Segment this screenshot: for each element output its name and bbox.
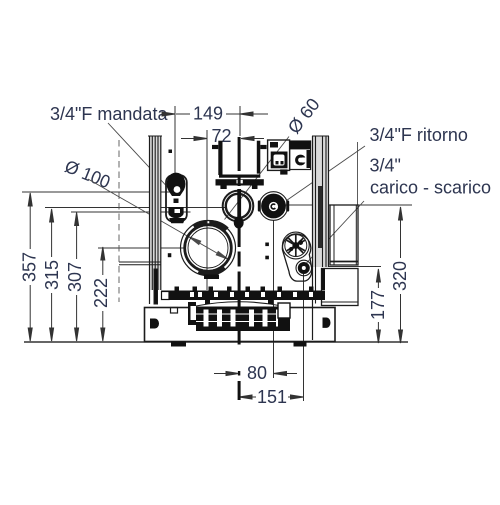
leader ritorno [287,146,366,201]
dim line 151 [239,395,304,399]
dim line 222 [101,247,105,341]
extension line y192 (357) [22,191,172,193]
svg-text:carico - scarico: carico - scarico [370,178,491,198]
svg-text:3/4": 3/4" [370,156,401,176]
frame band [161,291,325,301]
band white slots [190,292,313,297]
connector box left [268,140,290,170]
drain valve circle [296,260,312,276]
floor baseline [24,341,408,343]
burner left bracket [188,302,196,325]
safety valve star dial [282,232,312,281]
right wall [312,136,329,340]
dim line 357 [28,193,32,341]
svg-text:151: 151 [257,387,287,407]
extension line y205 (320) [283,204,412,206]
rear upper box [330,205,358,265]
svg-text:149: 149 [193,104,223,124]
base plate [145,308,336,342]
small bolts pair [265,243,269,247]
leader mandata [108,123,173,193]
svg-text:3/4"F mandata: 3/4"F mandata [50,104,168,124]
base hole right [323,318,331,328]
mandata fitting [166,173,187,224]
rear lower box [322,269,359,306]
dim line 80 [214,372,297,376]
burner right box [278,303,290,318]
svg-text:177: 177 [368,290,388,320]
leader diameter60 [225,137,290,220]
dim line 320 [399,207,403,343]
base foot right [294,342,307,347]
band top tabs [175,287,314,292]
extension line y248 (222) [98,247,186,249]
extension line x207 [206,130,208,290]
svg-text:222: 222 [91,278,111,308]
flue bracket U [212,141,267,189]
svg-text:357: 357 [20,252,40,282]
ritorno knob [258,192,289,221]
big flue circle [181,221,236,280]
extension line y267.7 (177) [322,266,381,268]
dim line 307 [75,213,79,342]
small dot top-left [169,150,173,154]
flue bracket lower lines [219,175,260,178]
svg-text:80: 80 [247,363,267,383]
extension line mandata x175 [174,106,176,177]
extension line top of centerline x240 [239,106,241,136]
extension line y208.5 (315) [45,207,225,209]
hinge axis dashed line [118,140,120,302]
extension line scarico x303.5 [303,274,305,401]
dim line 177 [376,269,380,343]
dim line 315 [50,209,54,341]
extension line y212 (307) [71,211,191,213]
rear flue edge line [357,142,359,205]
left bracket lines [119,262,161,265]
base hole left [150,319,159,329]
firebox arch [196,302,282,306]
dim line 72 [181,137,264,141]
connector box right [280,141,310,175]
extension line ritorno x273.5 [273,220,275,378]
svg-text:3/4"F ritorno: 3/4"F ritorno [370,125,468,145]
small dot left-mid [168,253,172,257]
base foot left [171,342,186,347]
svg-text:320: 320 [390,261,410,291]
burner block [196,307,283,332]
leader diameter100 with arrows [88,179,229,260]
mandata pipe circle [223,191,254,229]
leader carico-scarico [307,201,365,263]
svg-text:307: 307 [65,262,85,292]
svg-text:315: 315 [42,260,62,290]
left wall [148,136,162,304]
centerline dashed [237,137,241,400]
dim line 149 [162,112,268,116]
arch hanging tabs [205,300,273,305]
